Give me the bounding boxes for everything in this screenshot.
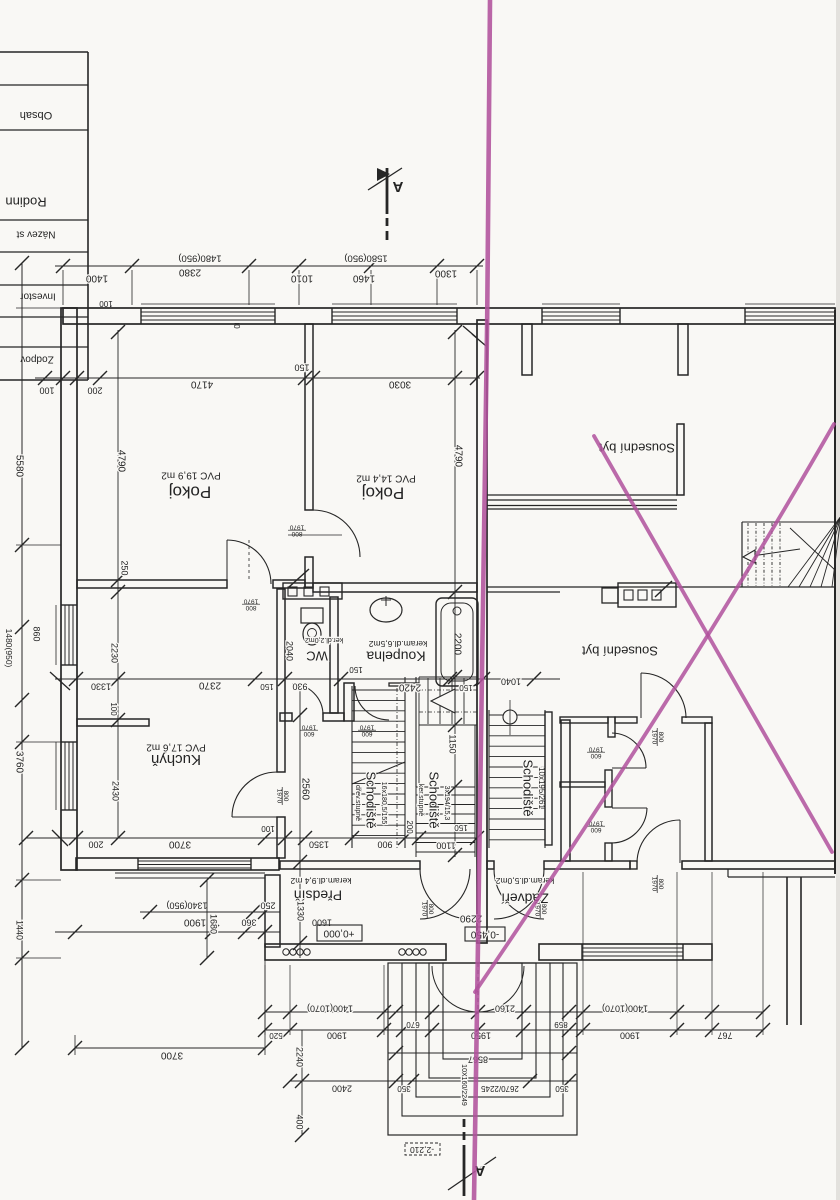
kitchen-bath dim line <box>50 665 560 692</box>
svg-text:670: 670 <box>406 1020 420 1029</box>
kitchen stub wall <box>77 719 149 726</box>
entrance dim complex <box>258 872 770 1142</box>
kitchen south wall with window <box>76 858 279 878</box>
door arc WC <box>292 684 323 715</box>
svg-text:3700: 3700 <box>160 1049 183 1060</box>
svg-text:Název st: Název st <box>16 228 55 239</box>
svg-text:-2,210: -2,210 <box>410 1145 434 1155</box>
svg-text:1400(1070): 1400(1070) <box>307 1004 353 1014</box>
svg-text:2420: 2420 <box>398 681 421 692</box>
corridor mid wall right apt <box>560 782 605 787</box>
WC south wall <box>280 713 292 721</box>
corridor west wall right apt <box>561 720 570 861</box>
svg-text:1400(1070): 1400(1070) <box>602 1004 648 1014</box>
svg-text:1900: 1900 <box>183 916 206 927</box>
svg-text:520: 520 <box>269 1031 283 1040</box>
door arc kitchen <box>232 772 277 817</box>
magenta cross line NE-SW <box>475 424 834 992</box>
svg-text:1970: 1970 <box>359 724 374 731</box>
bath north wall <box>313 583 477 592</box>
svg-text:1970: 1970 <box>243 598 258 605</box>
bath south wall piece <box>389 683 419 686</box>
level box +0,000 <box>317 925 362 941</box>
svg-text:Pokoj: Pokoj <box>362 484 405 503</box>
svg-text:Schodiště: Schodiště <box>427 771 442 828</box>
svg-text:1100: 1100 <box>436 841 455 851</box>
bottom wall of entrance section <box>265 944 712 960</box>
svg-text:1900: 1900 <box>620 1031 640 1041</box>
svg-text:Koupelna: Koupelna <box>366 648 425 664</box>
terrace walls right <box>786 877 788 1025</box>
svg-text:1150: 1150 <box>448 734 458 753</box>
level box -2,210 <box>405 1143 440 1155</box>
wall WC-bath divider <box>330 597 338 713</box>
door dashed line Pokoj1 <box>248 540 250 582</box>
svg-text:200: 200 <box>405 820 414 834</box>
svg-text:1970: 1970 <box>651 877 658 892</box>
svg-text:767: 767 <box>717 1031 732 1041</box>
entrance west wall <box>265 875 280 947</box>
svg-text:350: 350 <box>555 1084 569 1093</box>
svg-text:16x180,5/155: 16x180,5/155 <box>380 782 387 825</box>
svg-text:1040: 1040 <box>501 677 521 687</box>
svg-text:Obsah: Obsah <box>20 109 52 121</box>
washbasin <box>370 598 402 622</box>
svg-text:1900: 1900 <box>327 1031 347 1041</box>
kitchen east wall lower <box>277 817 285 858</box>
svg-text:2230: 2230 <box>110 643 120 663</box>
svg-text:930: 930 <box>292 682 307 692</box>
svg-text:1330: 1330 <box>91 682 111 692</box>
right apartment south wall <box>682 861 835 877</box>
wall between Pokoj rooms upper <box>305 324 313 510</box>
flue block left <box>283 583 342 599</box>
svg-text:1970: 1970 <box>421 902 428 917</box>
corridor top wall right apt <box>560 717 608 723</box>
svg-text:2040: 2040 <box>285 641 295 661</box>
Predsin north wall <box>280 861 420 869</box>
svg-text:Zodpov: Zodpov <box>20 353 53 364</box>
door3 label <box>587 820 605 834</box>
door arc Pokoj1 <box>227 540 271 584</box>
level box -0,450 <box>465 927 505 941</box>
svg-text:-0,450: -0,450 <box>470 928 499 939</box>
svg-text:150: 150 <box>454 823 468 832</box>
svg-text:Sousední byt: Sousední byt <box>599 441 675 456</box>
svg-text:859: 859 <box>554 1020 568 1029</box>
svg-text:150: 150 <box>260 682 274 691</box>
svg-text:3700: 3700 <box>168 838 191 849</box>
wall stub below top wall right <box>678 324 688 375</box>
section mark A bottom <box>448 1119 496 1196</box>
svg-text:5580: 5580 <box>13 455 24 478</box>
svg-text:1340(950): 1340(950) <box>166 901 207 911</box>
wall right of stair <box>545 712 552 845</box>
svg-text:10X160/2249: 10X160/2249 <box>460 1064 467 1106</box>
svg-text:2380: 2380 <box>178 266 201 277</box>
magenta vertical property line <box>474 0 490 1200</box>
svg-text:1970: 1970 <box>276 789 283 804</box>
door1 label <box>651 728 665 746</box>
windows in top wall <box>141 304 835 324</box>
svg-text:1440: 1440 <box>15 920 25 940</box>
svg-text:900: 900 <box>377 840 392 850</box>
door label WC <box>300 724 318 738</box>
Pokoj1 south wall left part <box>77 580 227 588</box>
door4 label <box>651 875 665 893</box>
top dimension line <box>55 252 484 329</box>
windows in left wall <box>56 605 77 810</box>
svg-text:2560: 2560 <box>299 778 310 801</box>
svg-text:1970: 1970 <box>651 730 658 745</box>
left interior vertical dims <box>109 325 130 845</box>
door arc Pokoj2 <box>313 510 360 557</box>
jamb wall bath-stair <box>344 683 354 721</box>
wall between Pokoj rooms lower <box>305 557 313 588</box>
svg-text:2430: 2430 <box>111 781 121 801</box>
right interior vertical dims <box>448 325 464 862</box>
big tick right flue <box>655 581 672 597</box>
svg-text:1460: 1460 <box>352 272 375 283</box>
door2 right apt <box>612 767 646 769</box>
magenta cross line NW-SE <box>594 436 832 852</box>
left vertical dim column <box>4 256 61 1055</box>
svg-text:100: 100 <box>39 386 54 396</box>
svg-text:ker.dl.2,0m2: ker.dl.2,0m2 <box>305 636 343 643</box>
svg-text:1010: 1010 <box>290 272 313 283</box>
door label bath <box>358 724 376 738</box>
door4 right apt <box>679 820 681 863</box>
toilet <box>301 608 323 623</box>
wall piece door4 <box>630 861 637 869</box>
right apartment vertical wall <box>677 424 684 495</box>
entrance door arcs left <box>420 869 470 919</box>
top exterior wall <box>63 308 835 324</box>
entrance door arcs right <box>494 869 544 919</box>
svg-text:1480(950): 1480(950) <box>178 252 221 263</box>
flue block right <box>618 583 676 607</box>
svg-text:1350: 1350 <box>309 840 329 850</box>
svg-text:1950: 1950 <box>471 1031 491 1041</box>
svg-text:3x194/15,3: 3x194/15,3 <box>443 786 450 821</box>
hall east wall right apt <box>705 723 712 861</box>
svg-text:Investor: Investor <box>20 290 56 301</box>
room width dim line <box>35 363 484 396</box>
svg-text:Sousední byt: Sousední byt <box>582 644 658 659</box>
svg-text:200: 200 <box>88 840 103 850</box>
door2 label <box>587 746 605 760</box>
mid vertical dims <box>285 641 311 958</box>
svg-text:A: A <box>392 178 403 195</box>
svg-text:4170: 4170 <box>190 378 213 389</box>
Zadveri north wall stub <box>487 861 494 869</box>
svg-text:1970: 1970 <box>301 724 316 731</box>
svg-text:PVC 19,9 m2: PVC 19,9 m2 <box>161 469 221 480</box>
svg-text:1680: 1680 <box>209 914 219 934</box>
right border edge <box>834 310 836 874</box>
svg-text:150: 150 <box>349 665 363 674</box>
svg-text:250: 250 <box>120 560 130 575</box>
bottom-left dim rows <box>55 873 280 965</box>
svg-text:1600: 1600 <box>312 918 332 928</box>
door label Pokoj1 <box>242 598 260 612</box>
svg-text:2200: 2200 <box>451 633 462 656</box>
svg-text:keram.dl.9,4 m2: keram.dl.9,4 m2 <box>290 876 351 886</box>
svg-text:2670/2245: 2670/2245 <box>481 1084 519 1093</box>
svg-text:PVC 17,6 m2: PVC 17,6 m2 <box>146 741 206 752</box>
staircase left wooden treads <box>352 677 405 848</box>
svg-text:Předsíň: Předsíň <box>294 887 342 903</box>
svg-text:2400: 2400 <box>332 1084 352 1094</box>
svg-text:3760: 3760 <box>13 751 24 774</box>
stair zone line right apartment <box>487 586 835 588</box>
svg-text:1970: 1970 <box>588 746 603 753</box>
right apartment north-room divider wall <box>487 494 677 496</box>
pillar right apt <box>608 717 615 737</box>
svg-text:1970: 1970 <box>289 524 304 531</box>
stair col divider <box>415 677 417 787</box>
wall stub below top wall center <box>522 324 532 375</box>
svg-text:150: 150 <box>459 683 473 692</box>
door label kitchen <box>276 787 290 805</box>
small stair to bath <box>419 677 477 725</box>
door label Pokoj2 <box>288 524 306 538</box>
fan staircase right <box>742 516 840 587</box>
door arc bath <box>355 686 389 720</box>
Zadveri north wall <box>544 861 630 869</box>
svg-text:150: 150 <box>294 363 309 373</box>
svg-text:Schodiště: Schodiště <box>521 759 536 816</box>
door label entrance left <box>421 900 435 918</box>
party wall top ticks <box>463 326 477 338</box>
svg-text:4790: 4790 <box>115 450 126 473</box>
svg-text:Schodiště: Schodiště <box>364 771 379 828</box>
corridor east wall segs <box>605 770 612 807</box>
svg-text:100: 100 <box>109 702 118 716</box>
svg-text:PVC 14,4 m2: PVC 14,4 m2 <box>356 472 416 483</box>
svg-text:250: 250 <box>260 901 275 911</box>
Pokoj1 south wall right part <box>273 580 305 588</box>
svg-text:2160: 2160 <box>495 1004 515 1014</box>
svg-text:2370: 2370 <box>198 679 221 690</box>
svg-text:Pokoj: Pokoj <box>169 483 212 502</box>
door1 right apt <box>640 673 642 718</box>
door3 right apt <box>612 807 647 809</box>
svg-text:350: 350 <box>397 1084 411 1093</box>
section mark A top <box>368 168 403 240</box>
svg-text:ker.stupně: ker.stupně <box>417 784 424 816</box>
svg-text:WC: WC <box>306 649 328 664</box>
svg-text:1300: 1300 <box>434 267 457 278</box>
big tick on wall <box>289 569 309 587</box>
svg-text:100: 100 <box>261 824 275 833</box>
staircase right apartment <box>489 700 545 848</box>
svg-text:100: 100 <box>99 299 113 308</box>
svg-text:360: 360 <box>241 918 256 928</box>
kitchen east wall upper <box>277 589 285 772</box>
corridor dim line <box>19 820 484 850</box>
svg-text:3030: 3030 <box>388 378 411 389</box>
svg-text:Rodinn: Rodinn <box>5 195 46 210</box>
entrance porch steps <box>388 963 577 1135</box>
svg-text:dřev.stupně: dřev.stupně <box>354 785 361 821</box>
svg-text:+0,000: +0,000 <box>323 927 354 938</box>
title block table <box>0 52 88 380</box>
dim 3700 bottom <box>68 960 272 1060</box>
svg-text:860: 860 <box>32 626 42 641</box>
svg-text:1580(950): 1580(950) <box>344 252 387 263</box>
svg-text:Kuchyň: Kuchyň <box>151 751 201 768</box>
svg-text:200: 200 <box>87 386 102 396</box>
svg-text:keram.dl.6,5m2: keram.dl.6,5m2 <box>368 639 427 649</box>
svg-text:1480(950): 1480(950) <box>4 629 14 668</box>
svg-text:400: 400 <box>295 1114 305 1129</box>
left exterior wall <box>61 308 77 870</box>
svg-text:2240: 2240 <box>295 1047 305 1067</box>
svg-text:1400: 1400 <box>85 272 108 283</box>
party wall between houses <box>477 320 487 943</box>
staircase lower flight <box>416 725 475 857</box>
bathtub <box>436 598 478 686</box>
door label entrance right <box>534 900 548 918</box>
svg-text:4790: 4790 <box>452 445 463 468</box>
